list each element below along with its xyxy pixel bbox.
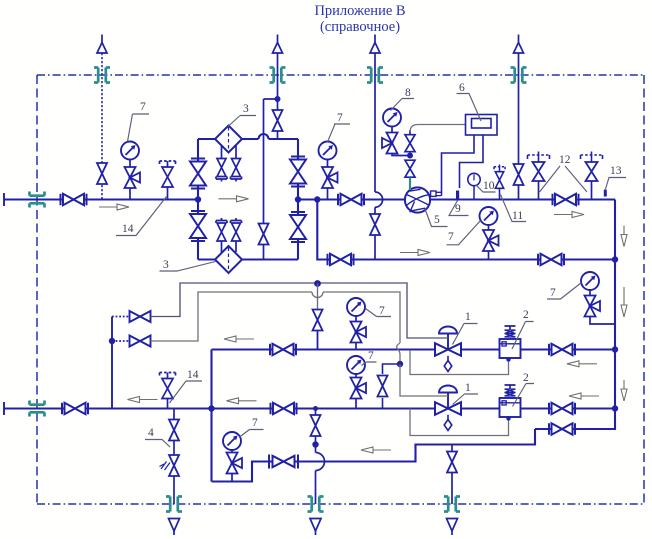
node: spine-runB junction [612,405,618,411]
wire: node to run B tap [383,364,401,374]
callout 11 [501,195,527,222]
callout 2 run A [512,322,534,350]
wire: gauge 8 stem [391,127,393,134]
wire: bypass drop from metering junction [317,200,615,260]
wire: stub 11 stem [499,188,501,199]
callout 1 run B [453,394,479,405]
wire: gauge 8 elbow to tap [392,153,410,156]
wire: relief stack x315.5 upper [315,409,317,445]
valve under vent tee [273,110,283,131]
callout 7 metering bypass [447,221,481,245]
callout 7 run A [366,309,392,317]
flange joint vent 1 [94,68,110,83]
vent stack 3 riser [374,35,376,193]
drain valve upper x174 [169,420,179,441]
run B inlet valve [271,403,297,414]
capped vent stub 14 on lower header [160,373,176,399]
svg-text:3: 3 [163,259,169,271]
valve on tap upper [405,135,415,152]
svg-text:2: 2 [523,309,529,321]
arrow filter gap [219,196,249,202]
wire: stub 14 stem [167,399,169,409]
node: pilot node [397,361,403,367]
svg-text:(справочное): (справочное) [320,19,400,35]
wire: stub 12 left stem [538,181,540,200]
drain tip x315.5 [310,519,321,532]
valve on vent drop x452 [447,452,457,473]
callout 4 [145,440,170,448]
svg-text:7: 7 [140,101,146,113]
drain valve lower x174 [169,455,179,476]
gauge 7 (right collector) [581,272,599,290]
valve on tap lower [405,160,415,177]
outlet shutoff valve [62,403,88,414]
drain tip x452 [447,519,458,532]
node: filter outlet junction [295,196,301,202]
wire: gauge stem x327.5 [327,160,329,200]
wire: left filter branch riser [197,139,199,200]
flange joint vent 4 [511,68,527,83]
selector valve b [130,336,151,347]
purge stub 12 (right) [581,152,603,182]
wire: pilot feed riser x112 [111,317,113,409]
lower filter drain valve a [216,218,227,253]
wire: dotted feed to selector b [112,340,130,342]
svg-text:11: 11 [512,210,523,222]
filter drain valve a [221,146,223,159]
filter 3 (lower) [215,246,242,273]
sample point 13 [604,190,607,197]
teal sensing segment [409,178,411,191]
wire: left branch lower riser [197,200,199,260]
flange joint vent 3 [367,68,383,83]
bypass valve x263.5 [259,224,269,245]
callout 6 [457,94,482,122]
regulator 2 (run A) [500,326,521,358]
svg-text:2: 2 [523,372,529,384]
node: header tap x315.5 [313,406,318,411]
wire: metering pipe [317,198,615,200]
callout 7 collector [547,283,582,300]
svg-text:14: 14 [122,223,134,235]
svg-text:1: 1 [465,311,471,323]
arrow down collector 2 [621,287,627,317]
svg-text:10: 10 [483,180,495,192]
node: pilot tee [109,338,115,344]
three-way cock under gauge 7 (inlet) [125,167,141,188]
bypass valve left [328,254,354,265]
svg-text:6: 6 [459,82,465,94]
meter inlet valve [338,194,364,205]
vent tip 3 [370,43,380,54]
vent tip 4 [514,43,524,54]
valve on left branch upper [190,159,206,189]
callout 1 run A [453,324,478,345]
inlet shutoff valve [61,194,87,205]
wire: lower header [4,407,615,409]
wire: pilot line to run A actuator [151,283,449,338]
run outlet valve [553,194,579,205]
callout 7 run B [362,362,377,366]
callout 3 upper [228,116,256,127]
wire: stub to filter run [277,131,279,140]
vent stack 1 riser [101,35,103,43]
callout 13 [606,178,627,190]
wire: regulator A sensing line [410,350,509,375]
wire: node to run B actuator [400,364,448,396]
arrow inlet [99,204,129,210]
arrow run outlet [554,212,584,218]
callout 7 before meter [328,124,351,142]
wire: computer to meter signal [442,135,475,196]
arrow left run B right [569,393,599,399]
wire: gauge stem x130 [129,160,131,200]
inlet end tick [3,193,5,206]
svg-text:12: 12 [559,154,571,166]
flange joint x452 [444,497,460,512]
callout 14 vent [170,381,203,403]
flange joint inlet [30,192,45,208]
drain tip x174 [169,519,180,532]
valve on drop x375 [370,214,380,235]
vent valve on stack 1 [97,163,107,184]
valve on right branch lower [290,212,306,242]
wire: regulator B sensing line [410,409,509,436]
arrow bypass [400,250,430,256]
gauge 7 (metering bypass) [488,225,490,230]
gauge 7 (outlet loop) [223,432,241,450]
wire: drain stack x174 [173,409,175,505]
flow computer 6 [466,115,498,136]
node: vent stack 2 tee [275,96,281,102]
wire: stub stem [167,187,169,200]
control valve 1 (run B) [435,386,461,431]
wire: drop from run to bypass x375 [374,207,376,259]
node: actuator line tap [314,280,321,287]
valve on run B tap [378,376,388,397]
node: filter inlet junction [195,196,201,202]
relief valve x315.5 [311,415,321,436]
valve on return line y429 [549,423,575,434]
flange joint x315.5 [308,497,324,512]
three-way cock under gauge (before meter) [322,167,338,188]
arrow left outlet loop [361,447,391,453]
regulator 2 (run B) [500,385,521,417]
wire: stub 12 right stem [591,181,593,200]
svg-text:7: 7 [379,305,385,317]
run A inlet valve [270,344,296,355]
wire: run A pipe [212,348,616,350]
arrow down collector 3 [621,380,627,401]
node: metering branch junction [314,196,320,202]
gauge 7 (inlet) [121,142,139,160]
svg-text:4: 4 [148,427,154,439]
filter drain valve b [235,146,237,159]
valve on tap drop [313,310,323,331]
svg-text:7: 7 [368,350,374,362]
callout 8 [391,99,415,111]
node: spine-bypass junction [612,256,618,262]
arrow left header mid [227,398,257,404]
wire: pilot drop to node [399,356,401,364]
wire: right spine [535,200,615,430]
svg-text:7: 7 [448,231,454,243]
filter 3 (upper) [215,126,242,153]
arrow left header left [128,397,158,403]
turbine gas meter 5 [405,187,430,212]
callout 2 run B [513,384,535,407]
vent tip 1 [97,43,107,54]
gauge 8 [383,109,401,127]
svg-text:1: 1 [465,382,471,394]
node: regulator B stem dot [506,416,510,420]
node: tap tee [407,153,413,159]
valve on left branch lower [190,211,206,241]
valve on right branch upper [290,157,306,187]
three-way cock under gauge 8 [382,133,398,154]
svg-text:14: 14 [187,369,199,381]
callout 5 [425,209,448,227]
vent valve on stack 4 [514,164,524,185]
svg-text:7: 7 [252,417,258,429]
outlet end tick [3,402,5,415]
callout 3 lower [160,262,216,272]
wire: return to outlet loop [212,429,536,482]
thermometer 10 [473,186,475,200]
svg-text:9: 9 [455,203,461,215]
node: relief node [312,441,318,447]
wire: tap stem to run B [382,398,384,409]
wire: computer to thermowell signal [460,135,484,188]
crossing hop on filter top run [259,134,269,139]
wire: vent stack 3 hop over run [375,192,383,207]
svg-text:7: 7 [550,287,556,299]
wire: vent stack 2 drop and elbow [264,99,278,111]
arrow left run A left [224,336,254,342]
wire: vent drop x452 [451,445,453,505]
svg-text:5: 5 [434,214,440,226]
capped vent stub 14 on inlet [160,161,176,187]
run A outlet valve [549,344,575,355]
wire: inlet pipe [4,198,198,200]
wire: pilot line to run B actuator [151,292,401,343]
wire: transmitter signal to computer [410,125,466,133]
arrow down collector 1 [621,226,627,247]
wire: right filter branch riser [297,139,299,200]
callout 7 outlet loop [240,430,264,438]
svg-text:7: 7 [337,112,343,124]
svg-text:Приложение В: Приложение В [314,3,405,19]
meter signal connector [436,192,442,195]
callout 14 inlet [116,197,167,236]
arrow left run A right [567,361,597,367]
wire: relief drop with hop [315,445,317,505]
flange joint outlet [30,401,45,417]
outlet loop valve [269,455,298,469]
boundary dashed frame [37,74,644,76]
wire: filter bypass drop x263.5 [263,99,265,260]
vent tip 2 [273,43,283,54]
wire: filter top run [198,138,298,140]
vent stack 2 riser [277,35,279,100]
svg-text:8: 8 [405,87,411,99]
wire: short header piece [298,198,317,200]
crossing hop on pilot line B [312,292,323,298]
node: regulator A stem dot [506,357,510,361]
flange joint vent 2 [270,68,286,83]
svg-text:3: 3 [243,103,249,115]
node: header junction [208,405,214,411]
vent stack 4 riser [518,35,520,200]
gauge 7 (before meter) [319,142,337,160]
capped vent stub 11 [494,165,505,189]
thermowell 9 [456,191,459,200]
callout 12 [540,166,588,192]
wire: tap drop to run A [317,284,319,310]
wire: pilot wiggle across run A [397,343,400,356]
wire: right branch lower riser [297,200,299,260]
node: spine-runA junction [612,346,618,352]
lower filter drain valve b [231,218,242,252]
callout 7 inlet [128,114,150,142]
control valve 1 (run A) [435,327,461,372]
run B outlet valve [549,403,575,414]
flange joint drain x174 [166,497,182,512]
bypass valve right [538,254,564,265]
spring mark item 4 [160,462,171,471]
purge stub 12 (left) [528,152,550,182]
gauge 7 (run A upstream) [355,316,357,327]
callout 9 [449,201,469,216]
wire: dotted feed to selector a [112,316,130,318]
selector valve a [130,311,151,322]
svg-text:13: 13 [610,165,622,177]
gauge 7 (run B upstream) [355,374,357,378]
wire: runA-to-header riser x211.5 [210,350,212,482]
wire: tap stack x410 [409,130,411,135]
callout 10 [476,185,496,192]
wire: lower filter run [198,258,298,260]
